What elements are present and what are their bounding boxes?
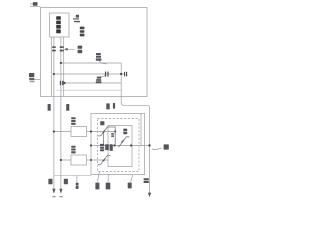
wire thermistor horizontal y=83 [65,82,122,84]
leader label 21 [152,148,161,150]
label 112 glyphs [78,46,83,49]
leader label 210b [131,175,133,182]
junction dot row1 left rail [53,130,55,132]
label pack terminal 2 [64,179,68,184]
label 20 bottom [106,183,111,190]
label 110 [80,27,85,30]
junction dot Q3 right [130,144,132,146]
label 121 [96,53,101,55]
wire node B+ horizontal y=74 [54,73,124,75]
label P+ near elbow [106,103,109,109]
label node P [100,144,104,146]
wire B+ vertical x=53.9 [53,37,55,193]
switch Q2 [98,156,110,165]
label B- below box [66,104,69,111]
terminal arrow P- [148,193,151,198]
label R1 [71,117,75,119]
leader label 22 [76,176,78,183]
label Q1 gate [111,133,114,135]
label IC pin [105,144,109,150]
arrow mark Q2 [102,158,105,162]
wire Q1 gate vertical [110,127,115,146]
wire mid y=145.5 [91,145,150,147]
cell stack text glyphs [56,16,61,20]
protection unit box 20 [91,114,145,175]
tap marks right of cell box [76,15,79,18]
junction dot node B+ y74 [53,73,55,75]
wire elbow to unit 20 [121,63,149,193]
connector ticks wire pair left y47 [52,46,56,48]
leader label 10 [30,4,41,6]
resistor box R1 [71,127,87,137]
connector bars y83 [60,81,61,85]
label 10 [33,2,38,6]
label SW1 [100,121,104,125]
wire B- vertical x=60.9 [60,37,62,193]
label 122 [97,77,101,79]
label 100 [29,73,34,77]
switch Q3 [118,137,130,147]
label B+ below box [48,104,51,111]
terminal arrow B+ [52,189,55,194]
resistor box R2 [71,155,87,165]
terminal arrow B- [59,189,62,194]
switch Q1 [98,127,110,136]
arrow mark Q3 [121,139,124,143]
wire Q1 source vertical [103,132,105,146]
label R2 [71,146,75,148]
leader label 20b [107,175,109,183]
junction dot Q1 gate row1 [114,131,116,133]
leader label 121 [99,61,107,64]
junction dot mid-left [90,144,92,146]
label 21 right [164,144,169,149]
junction dot Q3 left [113,144,115,146]
wire row1 y=131.5 [54,131,115,133]
wire inner vertical x=141 [140,114,142,146]
capacitor bars on y74 [105,72,106,77]
dashed box 230 [98,119,140,172]
junction dot mid-right out [148,144,150,146]
capacitor end bars x124 [124,72,125,77]
junction dot node B- y62 [60,62,62,64]
leader arrow line label 112 [65,48,75,50]
label 210 bottom [128,183,132,189]
wire node B- horizontal y=62 [61,62,121,64]
junction dot cap net [120,73,122,75]
label 230 bottom [95,183,99,190]
label 22 [76,183,79,186]
label pack terminal 1 [48,179,52,184]
connector ticks wire pair right y47 [60,46,64,48]
label P- near wire [144,178,149,180]
leader label 122 [100,75,106,77]
leader label 230 [98,172,100,182]
junction dot row2 [60,159,62,161]
IC box 210 [108,126,132,167]
wire leader label 100 [34,79,41,81]
junction dot thermistor net [63,82,65,84]
junction dot row2 rail [90,159,92,161]
arrowhead label 112 [64,48,67,51]
label SW3 [123,129,127,131]
battery cell box 110 [50,13,70,37]
wire sense vertical x=63.7 [63,37,65,97]
wire sense horizontal y=90 [56,89,121,91]
pack outer box 10 [41,8,148,97]
wire sense vertical x=51.3 [50,37,52,97]
arrow mark Q1 [102,129,105,133]
junction dot row1 box edge [90,130,92,132]
wire row2 y=160 [61,159,108,161]
wire faint y=175.4 [55,174,92,176]
